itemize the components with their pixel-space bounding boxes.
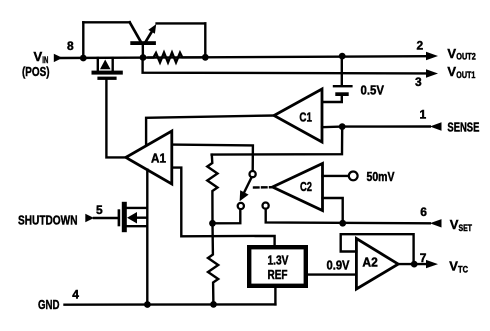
label VOUT2 — [447, 46, 475, 62]
wire: REF box bottom to ground — [274, 288, 276, 305]
svg-text:50mV: 50mV — [367, 169, 395, 184]
svg-text:C2: C2 — [300, 179, 312, 194]
svg-text:SET: SET — [459, 223, 473, 233]
wire: C2 upper input to 50mV source — [323, 175, 349, 177]
wire: ground rail — [65, 303, 276, 306]
transistor Q1 emitter lead — [145, 29, 154, 43]
resistor R2 (upper divider) — [207, 155, 217, 224]
transistor Q1 emitter arrowhead — [148, 24, 156, 34]
svg-text:V: V — [447, 46, 456, 61]
wire: C2 lower input down to VSET line — [323, 198, 343, 223]
svg-text:8: 8 — [67, 39, 74, 53]
svg-text:OUT1: OUT1 — [456, 70, 475, 80]
MOSFET M1 body arrow — [127, 212, 137, 224]
resistor R3 (lower divider) — [208, 223, 218, 304]
node: base/resistor junction — [140, 54, 147, 61]
MOSFET M1 gate bar — [118, 209, 121, 226]
svg-text:TC: TC — [458, 265, 468, 275]
switch S1 left contact — [238, 203, 244, 209]
VIN (POS) label — [22, 49, 50, 79]
wire: emitter rail down to resistor node — [204, 23, 206, 57]
wire: main VIN rail y=57 — [61, 56, 427, 58]
MOSFET M1 channel bar — [122, 202, 127, 232]
wire: battery bottom to C1 upper input — [322, 96, 342, 102]
transistor Q1 collector lead — [130, 22, 141, 41]
VOUT2 output arrow — [426, 52, 438, 60]
svg-text:2: 2 — [417, 38, 424, 52]
resistor R1 (base-emitter) — [149, 53, 202, 63]
svg-text:SENSE: SENSE — [447, 119, 479, 134]
svg-text:1.3V: 1.3V — [268, 252, 289, 267]
label VSET — [450, 217, 473, 233]
wire: emitter rail top — [157, 22, 206, 24]
wire: battery feed down — [341, 56, 343, 85]
svg-text:(POS): (POS) — [22, 64, 50, 79]
svg-text:0.9V: 0.9V — [327, 258, 350, 273]
svg-text:V: V — [450, 217, 459, 232]
wire: A1 input to switch common — [172, 145, 253, 171]
svg-text:OUT2: OUT2 — [456, 52, 476, 62]
MOSFET M1 drain stub — [127, 207, 148, 209]
svg-text:A2: A2 — [362, 255, 377, 270]
wire: VOUT1 branch from base node — [143, 58, 426, 73]
svg-text:7: 7 — [420, 251, 427, 265]
wire: REF box right to A2 input (0.9V) — [308, 273, 357, 275]
svg-text:6: 6 — [420, 205, 427, 219]
label VTC — [449, 259, 468, 275]
svg-text:1: 1 — [420, 108, 427, 122]
wire: base bar down to rail node — [142, 45, 144, 58]
svg-text:4: 4 — [72, 288, 79, 302]
svg-text:SHUTDOWN: SHUTDOWN — [18, 213, 78, 228]
MOSFET Q2 drain stub — [111, 58, 113, 71]
node: VOUT2/battery junction — [339, 53, 346, 60]
label 1.3V REF — [268, 252, 289, 282]
switch S1 right contact — [263, 203, 269, 209]
svg-text:0.5V: 0.5V — [361, 82, 385, 97]
wire: Q2 gate down to A1 output — [106, 80, 125, 157]
node: ground/shutdown junction — [144, 301, 151, 308]
wire: C1 lower input / SENSE line — [322, 125, 430, 128]
wire: collector rail top — [83, 21, 129, 23]
switch S1 arm — [244, 178, 251, 193]
wire: VIN node up to collector rail — [82, 22, 84, 58]
reference box 1.3V REF — [249, 247, 306, 286]
SHUTDOWN input arrow — [85, 214, 94, 222]
switch S1 top contact — [250, 171, 256, 177]
node: divider tap junction — [209, 220, 216, 227]
wire: A2 output — [398, 263, 427, 265]
svg-text:GND: GND — [38, 297, 60, 312]
svg-text:5: 5 — [96, 203, 103, 217]
wire: C1 output to A1 top edge — [146, 116, 274, 147]
VTC output arrow — [426, 260, 438, 268]
MOSFET Q2 body arrow — [100, 60, 111, 70]
node: A2 output junction — [411, 261, 418, 268]
op-amp A1 — [126, 131, 172, 184]
wire: shutdown gate lead — [94, 217, 118, 219]
svg-text:A1: A1 — [151, 151, 166, 166]
MOSFET M1 source stub — [127, 225, 148, 227]
battery 0.5V top plate — [333, 85, 353, 87]
svg-text:REF: REF — [268, 267, 288, 282]
node: SENSE junction — [339, 123, 346, 130]
node: ground/divider junction — [210, 301, 217, 308]
wire: SENSE feedback down — [212, 127, 343, 155]
node: VIN junction — [80, 55, 87, 62]
node: emitter/resistor junction — [202, 54, 209, 61]
50mV source terminal — [349, 172, 358, 181]
label VOUT1 — [447, 64, 475, 80]
wire: A2 feedback loop — [341, 234, 414, 264]
MOSFET Q2 channel bar — [92, 71, 123, 75]
wire: A1 ref input stub down — [172, 168, 275, 245]
MOSFET Q2 source stub — [97, 58, 99, 71]
wire: switch right contact to VSET line — [266, 209, 430, 223]
svg-text:V: V — [447, 64, 456, 79]
switch S1 arm arrowhead — [240, 190, 249, 201]
svg-text:C1: C1 — [299, 110, 312, 125]
MOSFET M1 body stub — [137, 216, 147, 218]
wire: divider tap to switch left contact — [213, 210, 241, 224]
wire: A1 ground leg — [146, 170, 148, 305]
VSET input arrow — [430, 219, 442, 227]
battery 0.5V bottom plate — [335, 92, 348, 96]
svg-text:V: V — [449, 259, 458, 274]
node: VSET/C2 junction — [339, 220, 346, 227]
VIN input arrow — [54, 54, 63, 62]
MOSFET Q2 gate bar — [97, 77, 116, 80]
dashed link C2 to switch — [254, 186, 272, 189]
op-amp C1 — [274, 89, 322, 142]
op-amp C2 — [273, 164, 323, 211]
SENSE input arrow — [430, 122, 442, 130]
VOUT1 output arrow — [426, 69, 438, 77]
op-amp A2 — [356, 239, 398, 290]
transistor Q1 base bar — [130, 41, 156, 45]
svg-text:3: 3 — [415, 75, 422, 89]
svg-text:V: V — [34, 49, 43, 64]
